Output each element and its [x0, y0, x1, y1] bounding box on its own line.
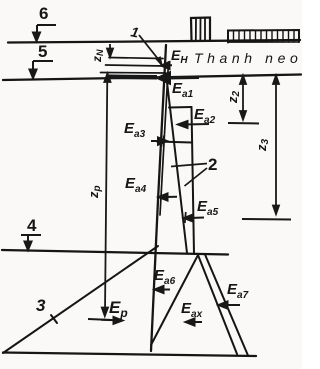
level mark 5 elbow arrow [30, 61, 54, 78]
label E_a5 [197, 198, 218, 218]
label z_2 rotated [225, 81, 243, 103]
label z_p rotated [86, 176, 104, 198]
bottom line (base of figure) [3, 353, 256, 357]
ground line 2 (lower ground surface behind wall) [3, 75, 301, 81]
label z_N rotated [90, 40, 108, 62]
force arrow E_a1 (thick) [159, 73, 200, 83]
label z_3 rotated [254, 129, 272, 151]
label E_a6 [154, 267, 175, 287]
force arrow E_a5 (with tick) [184, 212, 204, 223]
tick on slip line [51, 315, 57, 323]
label Thanh neo [194, 50, 302, 66]
anchor rod top line [109, 58, 163, 59]
label E_a4 [125, 175, 146, 195]
pressure envelope line R1 [167, 82, 187, 253]
passive band left line [198, 255, 237, 354]
z_3 bottom tick [242, 218, 291, 221]
label E_ax [181, 300, 202, 320]
label 5 [38, 42, 47, 62]
wall second stroke [160, 62, 169, 215]
label 1 [129, 23, 140, 40]
anchor rod lower line [101, 72, 167, 75]
force arrow E_a2 [178, 121, 209, 128]
pressure divider at Ea3 level [157, 142, 192, 143]
label E_a1 [172, 80, 193, 100]
z_2 bottom tick [228, 122, 259, 125]
anchor rod middle line [106, 65, 165, 66]
dimension z_p line with end arrows [102, 74, 111, 317]
level mark 6 elbow arrow [33, 25, 56, 41]
label 3 [36, 296, 45, 316]
label E_a2 [194, 106, 215, 126]
force arrow E_a3 (points right, with tick) [151, 136, 167, 147]
label 6 [39, 4, 48, 24]
ground line 1 (top ground surface) [8, 40, 300, 43]
label 4 [27, 216, 36, 236]
force arrow E_a7 [219, 302, 241, 309]
force arrow E_H (anchor force at wall) [161, 62, 172, 69]
wall sheet pile main line [151, 45, 166, 351]
label 2 [208, 155, 217, 175]
force arrow E_a4 [159, 194, 178, 201]
dredge line (excavation level, line 4) [2, 250, 228, 255]
label E_a7 [227, 281, 248, 301]
dimension z_2 line with end arrows [240, 76, 246, 120]
leader line for label 1 [139, 35, 162, 65]
pressure envelope line R2 [192, 107, 195, 254]
slip plane line 3 [3, 246, 158, 353]
force arrow E_ax [186, 319, 203, 326]
label E_H [171, 47, 188, 66]
surcharge block B (long hatched strip) [228, 30, 299, 43]
force arrow E_a6 [155, 286, 171, 293]
label E_p [109, 298, 128, 320]
surcharge block A (hatched building) [191, 18, 210, 41]
passive wedge hypotenuse [151, 255, 198, 345]
force arrow E_p (points right) [101, 317, 123, 324]
dimension z_N line and arrow [107, 44, 113, 57]
E_p base tick [88, 319, 112, 320]
label E_a3 [124, 120, 145, 140]
anchor rod thick bar [109, 75, 157, 80]
pressure box top edge [169, 106, 192, 109]
label 2 leader lines [171, 164, 207, 187]
passive band right line [205, 255, 248, 356]
dimension z_3 line with end arrows [273, 76, 279, 215]
level mark 4 elbow arrow [21, 235, 41, 250]
